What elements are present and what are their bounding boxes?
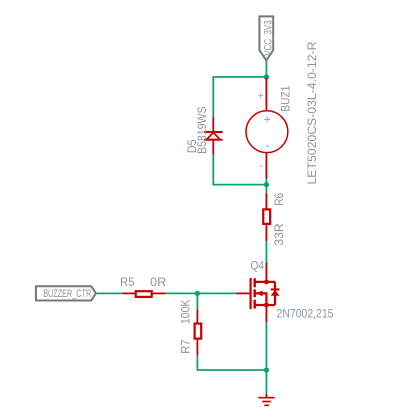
supply flag VCC_3V3 xyxy=(259,16,274,60)
svg-text:B5819WS: B5819WS xyxy=(197,106,209,154)
body connection xyxy=(256,293,266,305)
wire R5 to gate junction and Q4 gate xyxy=(165,292,236,294)
junction bottom of buzzer/diode/R6 xyxy=(264,182,269,187)
svg-text:R7: R7 xyxy=(181,340,193,354)
svg-text:LET5020CS-03L-4.0-12-R: LET5020CS-03L-4.0-12-R xyxy=(307,42,319,185)
svg-text:+: + xyxy=(264,115,271,127)
drain junction dot xyxy=(264,280,269,285)
wire BUZZER_CTR to R5 xyxy=(96,292,123,294)
svg-text:2N7002,215: 2N7002,215 xyxy=(277,306,334,320)
body arrow xyxy=(256,291,263,297)
gate pin xyxy=(236,292,250,294)
wire gate junction down to R7 xyxy=(196,293,198,309)
svg-text:0R: 0R xyxy=(150,277,166,289)
body diode cathode bar xyxy=(271,288,280,290)
resistor R6 33R xyxy=(263,193,286,246)
drain pin xyxy=(265,263,267,282)
svg-text:BUZ1: BUZ1 xyxy=(281,86,293,112)
junction source/R7/ground xyxy=(264,367,269,372)
svg-text:Q4: Q4 xyxy=(251,260,265,272)
wire R6 to Q4 drain xyxy=(265,241,267,262)
junction gate/R5/R7 xyxy=(195,291,200,296)
svg-text:+: + xyxy=(258,90,264,102)
buzzer BUZ1 xyxy=(246,42,319,185)
gate bar xyxy=(250,278,252,309)
svg-text:-: - xyxy=(259,160,263,172)
wire Q4 source to bottom rail xyxy=(265,322,267,370)
net flag BUZZER_CTR xyxy=(36,286,96,300)
wire buzzer bottom / R6 top short net xyxy=(265,178,267,193)
right vertical xyxy=(274,282,276,305)
channel segments xyxy=(253,278,256,287)
svg-text:-: - xyxy=(266,140,270,152)
wire diode bottom to bottom junction xyxy=(213,155,266,185)
svg-text:33R: 33R xyxy=(274,223,286,246)
drain stub xyxy=(255,281,275,283)
junction top (buzzer/diode/VCC) xyxy=(264,74,269,79)
transistor Q4 2N7002,215 xyxy=(236,260,334,322)
svg-text:100K: 100K xyxy=(181,299,193,324)
wire top junction to diode branch (left, down) xyxy=(213,77,266,117)
resistor R7 100K xyxy=(181,299,202,355)
source pin xyxy=(265,305,267,322)
wire VCC to top junction xyxy=(265,61,267,77)
svg-text:VCC_3V3: VCC_3V3 xyxy=(263,20,275,56)
diode D5 B5819WS xyxy=(187,106,222,154)
svg-text:BUZZER_CTR: BUZZER_CTR xyxy=(43,288,91,300)
wire bottom junction to ground xyxy=(265,370,267,394)
resistor R5 0R xyxy=(120,277,166,297)
source junction dot xyxy=(264,303,269,308)
svg-text:R6: R6 xyxy=(274,193,286,206)
ground xyxy=(258,394,274,406)
source stub xyxy=(255,304,275,306)
body diode triangle xyxy=(271,290,280,296)
svg-text:R5: R5 xyxy=(120,277,135,289)
wire bottom rail to R7 xyxy=(197,355,266,370)
